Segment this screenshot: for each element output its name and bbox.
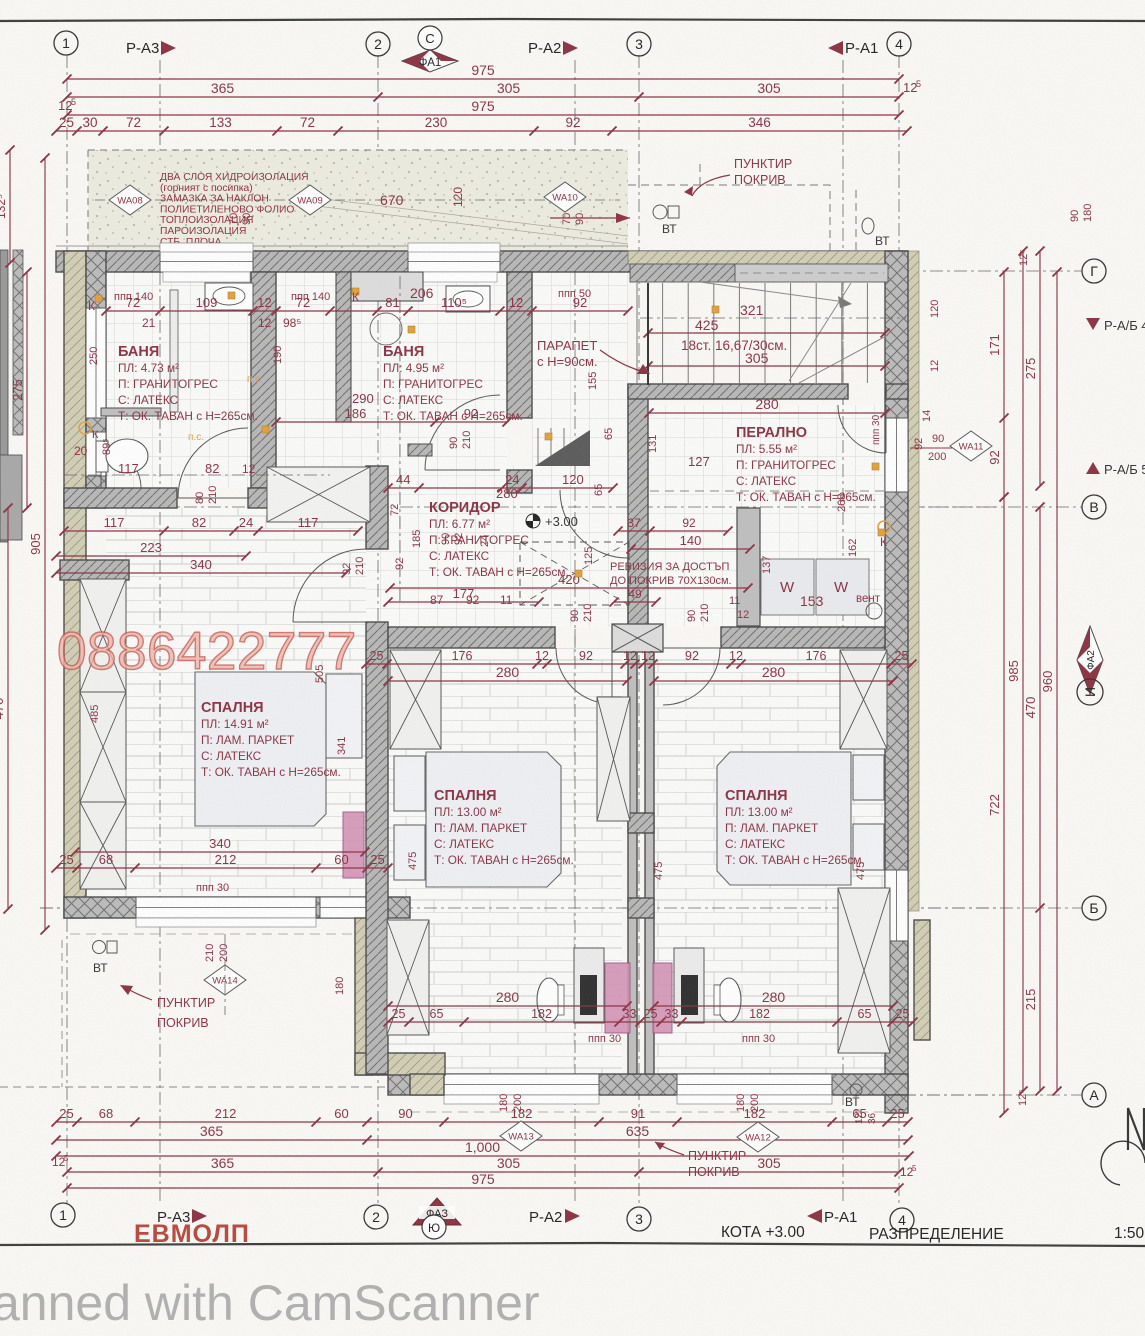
bed bedroom right: [717, 752, 884, 885]
wall H2 under baths right: [248, 488, 330, 508]
wardrobe center bedroom bottom left: [387, 920, 429, 1035]
axis bubble В: [1082, 495, 1106, 519]
marker WA11: [950, 431, 992, 461]
stair direction dark triangle: [535, 430, 590, 466]
roof slab dashed axis line: [95, 199, 620, 201]
section line P-A3: [159, 60, 161, 1205]
vent circle laundry: [866, 603, 882, 619]
marker WA12: [737, 1122, 779, 1152]
window right wall bedroom WA12: [885, 870, 908, 941]
cut wall fragment far left 2: [13, 250, 23, 435]
bath2 south wall piece: [408, 444, 432, 456]
section P-A2 over floor: [574, 272, 576, 1074]
level mark +3.00 corridor: [526, 514, 540, 528]
axis В over floor: [64, 506, 1000, 508]
bath1 shower glass line: [170, 290, 178, 412]
door laundry: [838, 405, 886, 453]
laundry pipes dashed line: [650, 490, 884, 492]
arrow punktir bottom left: [126, 988, 152, 1000]
window sill bath2 top: [408, 243, 500, 252]
triangle P-A1 bottom: [807, 1209, 822, 1223]
marker WA08: [109, 185, 151, 215]
marker R-A/B 4: [1086, 318, 1100, 330]
dim chain 280 bottom center: [388, 1005, 627, 1007]
room label corridor: [429, 500, 569, 579]
orange K circle laundry: [878, 521, 890, 533]
window inner sill bath1: [163, 272, 250, 282]
wardrobe center bedroom left: [390, 650, 441, 749]
bath2 shaft niche: [351, 272, 423, 301]
dim chain 280 center: [388, 680, 627, 682]
bottom chain row3: [56, 1155, 909, 1157]
marker WA13: [500, 1121, 542, 1151]
dim chain corridor top: [388, 487, 613, 489]
window left wall wc: [86, 432, 106, 476]
room label laundry: [736, 425, 876, 504]
chair center bedroom: [537, 978, 561, 1022]
dim chain bottom inside: [388, 1021, 913, 1023]
dim chain mid bedrooms: [366, 663, 912, 665]
scan bottom border line: [0, 1243, 1145, 1246]
grid bubble 3 top: [627, 32, 651, 56]
right chain 275 top: [1039, 251, 1041, 486]
grid bubble 2 bottom: [364, 1205, 388, 1229]
room label bedroom center: [434, 788, 574, 867]
wall H4 left segment: [388, 627, 555, 648]
door hall double: [560, 490, 628, 558]
wall V5 party leaf a: [628, 648, 637, 1074]
toilet wc: [96, 441, 108, 472]
washing machine W1: [761, 559, 814, 615]
stair parapet edge: [647, 283, 649, 385]
leader to WA11: [910, 447, 952, 449]
wardrobe right bedroom: [840, 650, 887, 749]
laundry nook wall vertical: [737, 508, 760, 626]
dim chain 212-60-25: [56, 867, 388, 869]
bed bedroom center: [394, 752, 561, 887]
bath2 axis dashdot: [399, 276, 401, 605]
facade marker FA1 top: [402, 50, 458, 72]
wc K symbol: [79, 422, 91, 434]
dim chain 140 laundry: [631, 548, 750, 550]
wall top exterior H1: [56, 251, 908, 272]
bath2 boiler circle: [370, 313, 402, 345]
axis А over floor: [855, 1094, 1000, 1096]
washing machine W2: [816, 559, 869, 615]
wall left exterior inner leaf: [86, 251, 106, 508]
wall H4 right segment: [721, 627, 885, 648]
right roof dashed vertical: [855, 190, 857, 251]
floor parquet bedroom left: [106, 508, 366, 897]
dashed line below bottom windows: [410, 1111, 890, 1113]
grid bubble 2 top: [366, 32, 390, 56]
floor tiles corridor: [330, 466, 628, 627]
triangle P-A3 bottom: [192, 1209, 207, 1223]
party wall pier 2: [628, 898, 654, 918]
dim chain wc row: [64, 530, 358, 532]
chair right bedroom: [717, 978, 741, 1022]
axis bubble А: [1082, 1083, 1106, 1107]
right chain 985: [1022, 251, 1024, 1091]
bottom chain row2: [56, 1139, 908, 1141]
door wc: [101, 448, 141, 488]
desk right bedroom: [674, 948, 704, 1023]
axis bubble Г: [1082, 259, 1106, 283]
window H6 right bedroom (182): [677, 1074, 832, 1095]
dim chain 975 top: [67, 78, 899, 80]
room label bedroom left: [201, 700, 341, 779]
triangle P-A2 top: [563, 41, 578, 55]
lower flight treads at landing: [538, 428, 564, 466]
marker WA14: [204, 965, 246, 995]
marker R-A/B 5: [1086, 462, 1100, 474]
scan top border line: [0, 19, 1145, 21]
section P-A3 over floor: [159, 272, 161, 897]
floor tiles laundry: [648, 405, 885, 627]
window bath2 top (206): [408, 251, 500, 272]
wall bottom-left exterior H5: [64, 897, 410, 918]
wc dashdot line: [64, 474, 330, 476]
stair treads: [637, 283, 867, 383]
wall right exterior V6: [885, 251, 908, 1095]
dim chain 37-92: [618, 530, 728, 532]
wall V5 party leaf b: [645, 648, 654, 1074]
window H6 center bedroom (182): [444, 1074, 599, 1095]
wall step V8 horizontal: [355, 1053, 445, 1075]
wall V3 between baths: [251, 272, 276, 488]
room label bath1: [118, 344, 258, 423]
floor tiles bath 1: [106, 272, 251, 488]
axis Б horizontal: [40, 907, 1082, 909]
wardrobe left bedroom a: [80, 579, 126, 692]
sink bath1: [205, 283, 253, 310]
insulation layers text block: [160, 172, 309, 248]
bottom chain row1: [56, 1121, 908, 1123]
wall H2 under baths left: [64, 488, 177, 508]
right chain 171-92: [1003, 272, 1005, 497]
stair arrow top right: [700, 282, 845, 302]
door bedroom center: [556, 648, 612, 704]
window right wall laundry WA11: [885, 418, 908, 492]
marker WA10: [544, 182, 586, 212]
floor tiles stair hall: [532, 272, 628, 488]
wall V7 party lower: [366, 622, 388, 1074]
door bath1: [178, 428, 248, 498]
dim chain detail top: [56, 130, 907, 132]
axis В horizontal: [912, 506, 1082, 508]
wall pier bedroom left corner: [60, 560, 129, 580]
axis bubble Б: [1082, 896, 1106, 920]
left chain 275: [26, 272, 28, 508]
left chain 132.5: [9, 150, 11, 263]
axis bubble I right rotated: [1077, 679, 1103, 705]
dim chain 340 bedroom left: [75, 851, 365, 853]
vent BT bottom left: [93, 941, 106, 954]
right chain 470-215: [1039, 507, 1041, 1091]
door bedroom right: [663, 648, 720, 705]
grid bubble 1 bottom: [51, 1203, 75, 1227]
dim chain bath row: [106, 310, 628, 312]
arrow punktir bottom right: [655, 1142, 684, 1155]
grid axis 1 vertical: [66, 55, 68, 1205]
dashed line below H5 window: [70, 933, 367, 935]
dim chain 280 bottom right: [654, 1005, 893, 1007]
axis Г over floor: [56, 270, 920, 272]
dim chain 49: [614, 601, 656, 603]
right chain 722: [1003, 497, 1005, 1113]
stair break diagonals: [789, 283, 888, 383]
wall V7 corridor-left-bedroom upper: [366, 466, 388, 549]
triangle P-A3 top: [161, 41, 176, 55]
facade marker FA3 bottom: [413, 1198, 461, 1225]
roof slab stippled area: [88, 150, 628, 251]
floor tiles bath 2: [276, 272, 507, 488]
roof slab dashed outline: [88, 150, 628, 251]
window bath1 top (109): [160, 251, 253, 272]
vent BT symbol top1: [653, 205, 667, 219]
grid bubble 4 top: [887, 32, 911, 56]
desk center bedroom: [574, 948, 604, 1023]
door bath2: [425, 395, 500, 470]
roof access dashed box: [520, 542, 629, 605]
sill below H6 windows: [444, 1095, 599, 1104]
grid axis 2 vertical: [377, 55, 379, 1205]
wall H4 pillar crossed: [612, 624, 663, 652]
axis А horizontal: [855, 1094, 1082, 1096]
arrow to roof dashes top: [692, 175, 730, 196]
right chain 960: [1056, 272, 1058, 1091]
grid axis 2 over floor: [377, 272, 379, 650]
window sill bath1 top: [160, 243, 253, 252]
wall step V8 below left block: [355, 918, 373, 1075]
dim chain 305 stairs line: [648, 365, 885, 367]
wall V4 right of bath2 lower: [507, 470, 532, 493]
section line P-A1: [842, 60, 844, 1205]
room label bath2: [383, 344, 523, 423]
dim chain 223: [56, 555, 246, 557]
slab bottom edge line: [56, 245, 628, 247]
wall left exterior outer leaf: [64, 251, 86, 918]
room label bedroom right: [725, 788, 865, 867]
north arrow cut at right edge: [1128, 1108, 1144, 1150]
right wall foot extension: [885, 1095, 908, 1113]
pink radiator party wall left: [605, 963, 630, 1033]
top wall tan leaf over stairs: [628, 251, 908, 264]
wall bottom exterior H6: [388, 1074, 908, 1095]
grid axis 4 vertical: [898, 55, 900, 1205]
wardrobe center bedroom right side: [597, 697, 630, 821]
grid bubble 3 bottom: [627, 1207, 651, 1231]
terrace dashed outline: [0, 940, 390, 1087]
stair upper flight band hatched: [630, 264, 735, 282]
pink radiator party wall right: [653, 963, 672, 1033]
floor parquet bedroom right: [654, 648, 885, 1074]
triangle P-A1 top: [828, 41, 843, 55]
door bedroom left: [293, 549, 366, 622]
party wall pier 1: [628, 813, 654, 833]
dim chain 340 left: [56, 572, 346, 574]
wa14 axis: [224, 934, 226, 1015]
grid bubble 1 top: [54, 31, 78, 55]
dim chain bath2 bottom: [276, 421, 507, 423]
bottom chain row4: [67, 1171, 899, 1173]
right outer tan leaf: [908, 251, 919, 911]
dim chain 177 corridor: [388, 601, 539, 603]
stair upper flight band plain: [735, 264, 888, 282]
wardrobe left bedroom b: [80, 692, 126, 802]
left chain 905: [44, 158, 46, 930]
dim chain 280 right: [654, 680, 893, 682]
roof slope arrow: [550, 217, 630, 219]
left chain 470: [7, 508, 9, 909]
right outer tan strip: [914, 920, 930, 1040]
bath2 dividing wall B: [336, 272, 351, 422]
triangle P-A2 bottom: [565, 1209, 580, 1223]
roof dashed outline top right: [628, 160, 830, 251]
pink radiator left bedroom: [343, 812, 364, 878]
axis Б over floor: [40, 907, 1000, 909]
vent BT bottom right: [850, 1084, 862, 1096]
window left wall bath: [86, 308, 106, 418]
section line P-A2: [574, 60, 576, 1205]
wall H7 laundry top: [628, 384, 848, 399]
vent BT symbol top2: [862, 218, 874, 234]
cut wall fragment far left: [0, 250, 8, 542]
marker WA09: [289, 185, 331, 215]
window H5 small (60): [320, 897, 367, 918]
floor parquet bedroom center: [388, 648, 622, 1074]
dim chain 365-305-305 top: [67, 96, 899, 98]
sink bath2: [446, 286, 490, 312]
grid axis 3 vertical: [638, 55, 640, 1205]
bottom chain row5: [67, 1187, 899, 1189]
wall H6 corner tan left: [410, 1074, 444, 1095]
wall V4 right of bath2 upper: [507, 272, 532, 418]
dim chain 425 stairs line: [648, 332, 885, 334]
stair dashdot axis line: [640, 317, 906, 319]
dim chain 280 laundry: [649, 412, 885, 414]
grid bubble 4 bottom: [890, 1208, 914, 1232]
bath1 partition near toilet: [101, 408, 161, 416]
dim chain 975 second: [67, 114, 899, 116]
window H5 terrace door (212): [136, 897, 316, 918]
section P-A1 over floor: [842, 272, 844, 1074]
roof slab slope lines: [300, 196, 628, 244]
parapet leader arrow: [600, 350, 644, 372]
facade marker FA2 right rotated: [1077, 626, 1103, 694]
wall V5 laundry left: [628, 385, 648, 648]
sill below H5 window: [136, 918, 316, 927]
dim chain 420 corridor: [390, 587, 748, 589]
window inner sill bath2: [411, 272, 497, 282]
axis Г horizontal: [690, 270, 1082, 272]
bed bedroom left: [195, 672, 362, 826]
orange socket symbols: [95, 288, 885, 577]
wardrobe left bedroom c: [80, 802, 126, 889]
crossed box corridor NW corner: [267, 467, 370, 522]
wardrobe right bedroom bottom: [838, 888, 890, 1053]
wall H7 laundry top right stub: [886, 384, 908, 399]
